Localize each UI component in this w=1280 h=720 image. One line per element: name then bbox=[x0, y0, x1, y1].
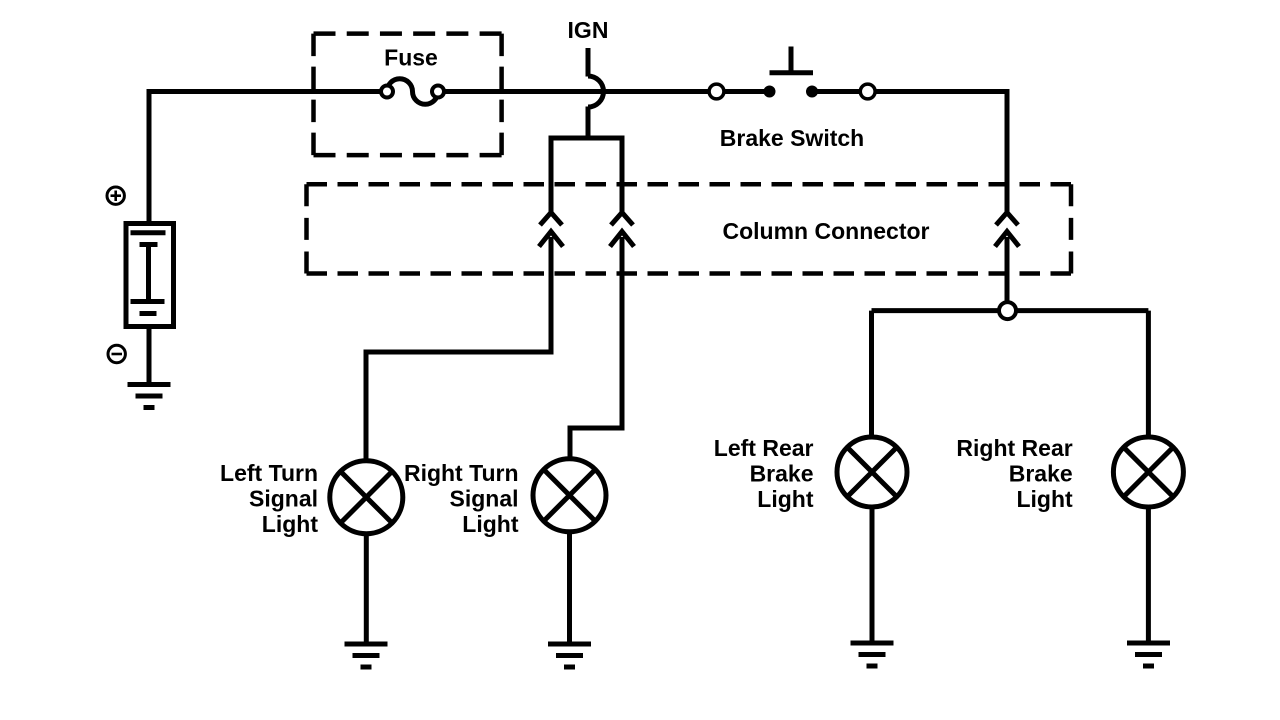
svg-text:Left Rear: Left Rear bbox=[714, 435, 814, 461]
label Right Turn Signal Light bbox=[404, 460, 519, 537]
connector pin right (female+male) bbox=[995, 213, 1019, 247]
svg-text:Light: Light bbox=[757, 486, 814, 512]
label Brake Switch bbox=[720, 125, 864, 151]
wire hop over top rail bbox=[588, 76, 603, 107]
ground (left rear lamp) bbox=[851, 643, 894, 666]
wire right-rear lamp to ground bbox=[1146, 509, 1151, 645]
svg-text:Signal: Signal bbox=[249, 486, 318, 512]
battery B1 bbox=[126, 224, 174, 327]
lamp left rear brake bbox=[837, 437, 907, 507]
wire fuse-to-switch (top rail middle) bbox=[437, 89, 770, 94]
wire IGN drop lower bbox=[586, 107, 591, 141]
svg-text:Fuse: Fuse bbox=[384, 45, 438, 71]
fuse F1 bbox=[381, 79, 444, 105]
label Fuse bbox=[384, 45, 438, 71]
label Left Rear Brake Light bbox=[714, 435, 814, 512]
ground (right turn lamp) bbox=[548, 644, 591, 667]
wire left-turn feed bbox=[366, 237, 551, 459]
label Left Turn Signal Light bbox=[220, 460, 318, 537]
lamp left turn signal bbox=[330, 461, 403, 534]
battery positive terminal marker bbox=[107, 187, 124, 204]
column connector box (dashed) bbox=[307, 184, 1072, 273]
wire right-rear drop bbox=[1146, 311, 1151, 436]
wire right connector shaft to node bbox=[1005, 237, 1010, 301]
label IGN bbox=[568, 17, 609, 43]
svg-text:Brake: Brake bbox=[1009, 461, 1073, 487]
svg-text:Light: Light bbox=[262, 511, 319, 537]
connector pin middle (female+male) bbox=[610, 213, 634, 247]
svg-text:IGN: IGN bbox=[568, 17, 609, 43]
label Right Rear Brake Light bbox=[956, 435, 1073, 512]
ground (left turn lamp) bbox=[345, 644, 388, 667]
svg-text:Signal: Signal bbox=[449, 486, 518, 512]
lamp right rear brake bbox=[1113, 437, 1183, 507]
lamp right turn signal bbox=[533, 459, 606, 532]
svg-text:Brake Switch: Brake Switch bbox=[720, 125, 864, 151]
wire right-turn lamp to ground bbox=[567, 532, 572, 645]
ground (right rear lamp) bbox=[1127, 643, 1170, 666]
wire switch-to-right-drop (top rail right) bbox=[812, 92, 1007, 214]
wire battery-to-ground bbox=[147, 326, 152, 385]
wire IGN drop bbox=[586, 48, 591, 77]
node brake junction bbox=[999, 302, 1016, 319]
svg-text:Light: Light bbox=[1016, 486, 1073, 512]
wire battery-to-fuse (top rail left) bbox=[149, 92, 388, 222]
svg-text:Light: Light bbox=[462, 511, 519, 537]
wire tee to connectors bbox=[549, 138, 625, 213]
battery negative terminal marker bbox=[108, 345, 125, 362]
wire brake junction horizontal bbox=[872, 308, 1149, 313]
wire left-rear lamp to ground bbox=[870, 509, 875, 645]
svg-text:Brake: Brake bbox=[750, 461, 814, 487]
fuse box (dashed) bbox=[314, 34, 502, 156]
ground (battery) bbox=[128, 385, 171, 408]
wire right-turn feed bbox=[570, 237, 622, 458]
connector pin left (female+male) bbox=[539, 213, 563, 247]
wire left-rear drop bbox=[869, 311, 874, 436]
svg-text:Right Rear: Right Rear bbox=[956, 435, 1072, 461]
brake switch SW1 bbox=[709, 47, 875, 99]
svg-text:Column Connector: Column Connector bbox=[723, 218, 930, 244]
svg-text:Left Turn: Left Turn bbox=[220, 460, 318, 486]
wire left-turn lamp to ground bbox=[364, 534, 369, 645]
label Column Connector bbox=[723, 218, 930, 244]
svg-text:Right Turn: Right Turn bbox=[404, 460, 519, 486]
